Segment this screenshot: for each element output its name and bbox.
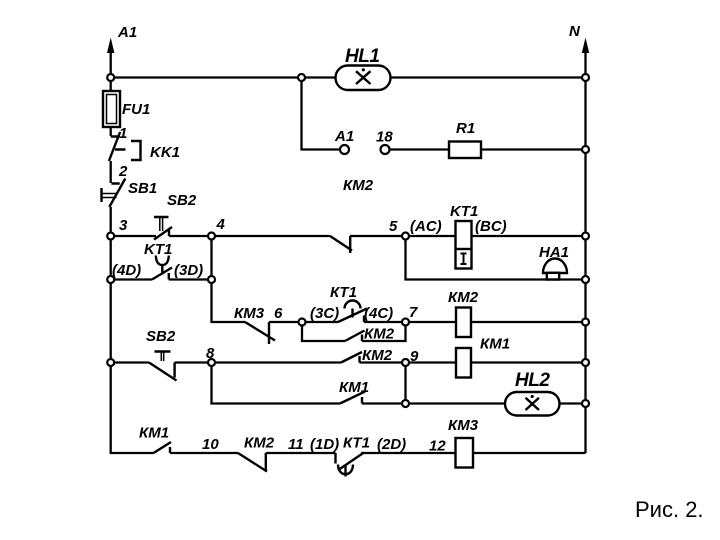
svg-text:A1: A1 bbox=[334, 128, 354, 145]
svg-text:FU1: FU1 bbox=[122, 101, 150, 118]
svg-text:KT1: KT1 bbox=[144, 241, 172, 258]
svg-text:КМ2: КМ2 bbox=[343, 177, 374, 194]
svg-text:КТ1: КТ1 bbox=[330, 284, 357, 301]
svg-text:КМ1: КМ1 bbox=[139, 425, 169, 442]
svg-text:SB2: SB2 bbox=[146, 328, 176, 345]
svg-text:12: 12 bbox=[429, 438, 446, 455]
svg-text:КМ2: КМ2 bbox=[364, 326, 395, 343]
svg-text:КМ1: КМ1 bbox=[339, 379, 369, 396]
svg-text:(AC): (AC) bbox=[410, 218, 442, 235]
svg-text:КМ2: КМ2 bbox=[362, 347, 393, 364]
svg-text:КМ3: КМ3 bbox=[448, 417, 479, 434]
svg-text:6: 6 bbox=[274, 305, 283, 322]
svg-text:N: N bbox=[569, 23, 581, 40]
svg-text:Рис. 2.: Рис. 2. bbox=[635, 497, 704, 522]
svg-text:(BC): (BC) bbox=[475, 218, 507, 235]
svg-text:(3С): (3С) bbox=[310, 305, 339, 322]
svg-text:HL2: HL2 bbox=[515, 370, 550, 391]
svg-text:A1: A1 bbox=[117, 24, 137, 41]
svg-text:18: 18 bbox=[376, 129, 393, 146]
svg-text:SB1: SB1 bbox=[128, 180, 157, 197]
svg-text:(2D): (2D) bbox=[377, 436, 406, 453]
svg-text:КМ2: КМ2 bbox=[244, 435, 275, 452]
svg-text:SB2: SB2 bbox=[167, 192, 197, 209]
svg-text:HA1: HA1 bbox=[539, 244, 569, 261]
svg-text:КМ2: КМ2 bbox=[448, 289, 479, 306]
svg-text:КМ1: КМ1 bbox=[480, 336, 510, 353]
svg-text:KK1: KK1 bbox=[150, 144, 180, 161]
svg-text:(4С): (4С) bbox=[364, 305, 393, 322]
svg-text:(4D): (4D) bbox=[112, 262, 141, 279]
svg-text:3: 3 bbox=[119, 217, 128, 234]
svg-text:КМ3: КМ3 bbox=[234, 305, 265, 322]
svg-text:2: 2 bbox=[118, 163, 128, 180]
svg-text:5: 5 bbox=[389, 218, 398, 235]
svg-text:(1D): (1D) bbox=[310, 436, 339, 453]
svg-text:КТ1: КТ1 bbox=[343, 435, 370, 452]
svg-text:R1: R1 bbox=[456, 120, 475, 137]
svg-text:10: 10 bbox=[202, 436, 219, 453]
svg-text:9: 9 bbox=[410, 348, 419, 365]
svg-text:4: 4 bbox=[216, 216, 226, 233]
svg-text:(3D): (3D) bbox=[174, 262, 203, 279]
svg-text:HL1: HL1 bbox=[345, 46, 379, 67]
svg-text:7: 7 bbox=[409, 304, 418, 321]
svg-text:11: 11 bbox=[288, 436, 304, 453]
